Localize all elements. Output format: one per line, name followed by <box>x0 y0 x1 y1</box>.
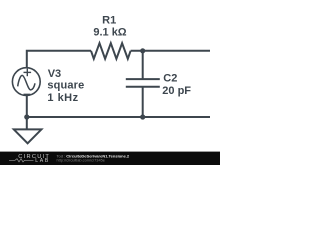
svg-text:LAB: LAB <box>35 158 50 164</box>
wire from V3 bottom terminal down to ground node <box>26 95 28 129</box>
wire capacitor C2 top lead <box>142 51 144 79</box>
svg-text:20 pF: 20 pF <box>162 85 191 97</box>
wire from resistor R1 right lead to open end at right <box>131 50 210 52</box>
svg-text:square: square <box>47 79 84 91</box>
node junction dot at R1 / C2 top <box>140 48 145 53</box>
node junction dot at V3 / ground rail <box>24 114 29 119</box>
svg-text:V3: V3 <box>48 68 61 80</box>
svg-text:C2: C2 <box>163 73 177 85</box>
wire capacitor C2 bottom lead <box>142 87 144 117</box>
ground <box>14 129 42 143</box>
resistor R1 <box>91 43 131 59</box>
svg-text:9.1 kΩ: 9.1 kΩ <box>93 27 126 39</box>
footer watermark bar <box>0 152 220 165</box>
wire bottom rail from ground node to open end at right <box>27 116 210 118</box>
svg-text:http://circuitlab.com/c/7345e: http://circuitlab.com/c/7345e <box>57 158 105 163</box>
svg-text:R1: R1 <box>102 15 116 27</box>
CircuitLab logo wire squiggle <box>9 159 34 162</box>
voltage source V3 <box>12 68 40 96</box>
node junction dot at C2 bottom rail <box>140 114 145 119</box>
wire from V3 top terminal up and right to resistor R1 left lead <box>27 51 91 68</box>
capacitor C2 <box>126 79 160 87</box>
svg-text:1 kHz: 1 kHz <box>47 92 78 104</box>
